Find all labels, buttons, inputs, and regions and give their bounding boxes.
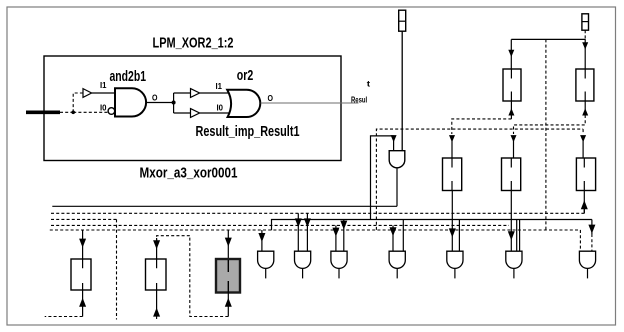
- wire M2 top input: [513, 140, 515, 158]
- wire R1 bottom stem: [82, 290, 84, 317]
- arrow on M2-G6 wire: [508, 231, 515, 240]
- svg-text:O: O: [152, 93, 158, 103]
- arrow up into block R2 bottom: [153, 308, 160, 317]
- wire G4 left input from D2: [392, 225, 394, 251]
- wire M2 bottom stem down to gate G6: [510, 191, 512, 252]
- wire buffer B3 to or2: [200, 112, 230, 114]
- buffer B1: [83, 89, 92, 98]
- wire X1 output stem: [396, 168, 398, 207]
- svg-text:Resul: Resul: [351, 94, 367, 104]
- svg-text:and2b1: and2b1: [110, 68, 147, 85]
- wire node B to buffer B2: [174, 92, 191, 94]
- wire dashed junction up to buffer: [73, 93, 83, 112]
- wire pin P1 down to gate X1: [401, 31, 403, 151]
- and-gate G4: [389, 251, 405, 278]
- wire dashed T1 bottom to M1 top: [452, 119, 512, 134]
- block T2: [576, 69, 594, 101]
- arrow up into block T2 bottom: [582, 108, 588, 115]
- wire dashed X1-area riser x=376.4 to row y=129: [376, 129, 583, 230]
- wire G4 right input from S2: [402, 220, 404, 252]
- buffer B2: [191, 89, 200, 98]
- wire node B split vertical: [173, 93, 175, 113]
- wire dashed big dropper x=545.9: [545, 39, 547, 230]
- wire G5 right input from S2: [458, 220, 460, 252]
- wire S2 branch riser to X1 left input: [371, 136, 394, 220]
- node junction A: [71, 111, 75, 115]
- and-gate G3: [331, 251, 347, 278]
- wire dashed G7 right input lower: [591, 234, 593, 251]
- block M3: [576, 158, 595, 191]
- svg-text:I1: I1: [216, 81, 223, 91]
- svg-text:I1: I1: [100, 80, 107, 90]
- arrow up into block R1 bottom: [79, 298, 86, 307]
- arrow into block R1 top: [79, 239, 86, 248]
- hierarchy box Mxor_a3_xor0001: [44, 56, 341, 161]
- wire buffer B1 to and2b1: [92, 92, 115, 94]
- wire block T1 bottom stem: [510, 101, 512, 119]
- wire M1 bottom stem down to gate G5: [451, 191, 453, 252]
- wire G2 right input from D1: [306, 213, 308, 251]
- wire into block T1 top: [510, 39, 512, 69]
- input bus stub (thick): [26, 111, 60, 115]
- block R3 (selected, gray): [216, 259, 240, 293]
- arrow up into block R3 bottom: [225, 298, 232, 307]
- wire R2 bottom stem: [156, 290, 158, 316]
- wire row S1 solid: [52, 205, 397, 207]
- arrow into block M1 top: [449, 135, 455, 142]
- wire dashed D1 end riser to M3: [583, 208, 585, 213]
- or-gate or2: [227, 90, 260, 117]
- wire G7 left input dashed from D3: [579, 230, 581, 251]
- node junction B: [172, 101, 176, 105]
- arrow into block T2 top: [582, 42, 588, 49]
- wire M3 bottom stem to row D1: [583, 191, 585, 214]
- wire dashed input to junction: [60, 111, 73, 113]
- arrow into block R3 top: [225, 238, 232, 247]
- and-gate G7: [579, 251, 595, 278]
- block R2: [146, 259, 167, 290]
- wire or2 output to Result: [261, 102, 359, 104]
- arrow up into block T1 bottom: [508, 108, 514, 115]
- wire dashed corner to R2 top: [157, 236, 190, 242]
- wire row D2 dashed: [51, 224, 509, 226]
- wire into block R1 top: [82, 230, 84, 259]
- block R1: [71, 259, 91, 290]
- pin P1: [399, 10, 406, 31]
- arrow into block R2 top: [153, 240, 160, 249]
- wire G3 right input from S2: [343, 220, 345, 252]
- wire M3 top input: [582, 140, 584, 158]
- svg-text:I0: I0: [100, 103, 107, 113]
- svg-text:LPM_XOR2_1:2: LPM_XOR2_1:2: [153, 35, 234, 52]
- wire X1 left input: [393, 140, 395, 151]
- svg-text:O: O: [268, 93, 274, 103]
- wire dashed T2 bottom to M2 top: [514, 115, 586, 134]
- wire G3 left input from D2: [335, 225, 337, 251]
- arrow on G3 right input: [340, 221, 347, 230]
- wire block T2 bottom stem: [584, 101, 586, 115]
- and-gate X1 (xor stage): [389, 151, 405, 168]
- wire row D3 dashed: [50, 229, 581, 231]
- wire G7 right input from S2 end: [591, 220, 593, 235]
- arrow on M1-G5 wire: [449, 228, 456, 237]
- pin P2: [582, 14, 589, 30]
- svg-text:Mxor_a3_xor0001: Mxor_a3_xor0001: [140, 165, 238, 182]
- wire R2 top input: [156, 238, 158, 259]
- wire G6 mid input from S2: [516, 220, 518, 252]
- and-gate G1: [258, 251, 274, 278]
- arrow on G1 input: [258, 233, 265, 242]
- arrow on G4 left input: [390, 227, 397, 236]
- and-gate and2b1: [115, 88, 146, 116]
- wire G6 right input from S2: [519, 220, 521, 252]
- svg-text:Result_imp_Result1: Result_imp_Result1: [196, 123, 300, 140]
- block T1: [503, 69, 521, 101]
- arrow on G7 right input: [588, 225, 595, 234]
- wire M1 top input: [451, 140, 453, 158]
- wire G2 left input from D1: [297, 213, 299, 251]
- block M2: [502, 158, 521, 191]
- wire dashed R1 bottom tail: [45, 316, 83, 318]
- arrow up into block M3 bottom: [581, 200, 588, 209]
- and-gate G2: [295, 251, 311, 278]
- wire and2b1 output to node B: [147, 102, 174, 104]
- arrow into block T1 top: [508, 50, 514, 57]
- arrow into block M3 top: [580, 135, 586, 142]
- wire R3 top input from D3: [227, 230, 229, 259]
- svg-text:or2: or2: [237, 67, 254, 84]
- inverter bubble of and2b1: [108, 108, 115, 115]
- wire dashed pin P2 stub: [584, 30, 586, 39]
- arrow on G2 left input: [295, 218, 302, 227]
- svg-text:t: t: [367, 78, 371, 88]
- wire G1 input from D3: [261, 230, 263, 251]
- wire buffer B2 to or2: [200, 92, 230, 94]
- arrow on G3 left input: [332, 228, 339, 237]
- wire row D1b dashed left: [51, 218, 117, 220]
- wire top-right horizontal: [511, 38, 585, 40]
- arrow on G2 right input: [304, 218, 311, 227]
- wire row S2 solid: [272, 220, 592, 231]
- svg-text:I0: I0: [217, 103, 224, 113]
- wire node B to buffer B3: [174, 112, 191, 114]
- block M1: [443, 158, 462, 191]
- wire row D1 dashed: [51, 212, 584, 214]
- arrow into block M2 top: [511, 135, 517, 142]
- buffer B3: [191, 109, 200, 118]
- wire dashed R2 bottom tail: [156, 316, 158, 321]
- wire R3 bottom stem: [227, 293, 229, 317]
- wire dashed junction to inverter bubble: [73, 111, 108, 113]
- wire dashed dropper x=116.5: [116, 219, 118, 319]
- arrow into X1 left input: [391, 135, 397, 142]
- wire into block T2 top: [584, 39, 586, 69]
- wire dashed R3 bottom to dropper: [190, 236, 229, 317]
- and-gate G5: [447, 251, 463, 278]
- and-gate G6: [506, 251, 522, 278]
- wire dashed row129 end down to M3: [582, 129, 584, 134]
